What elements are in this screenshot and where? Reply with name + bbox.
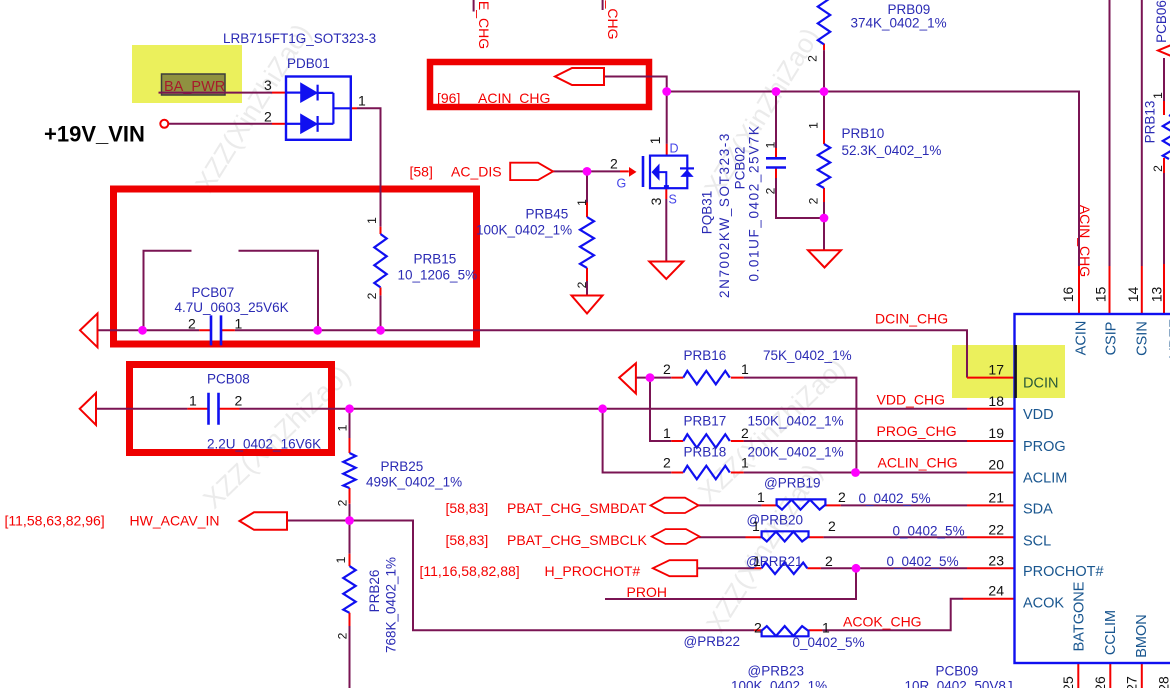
svg-text:0_0402_5%: 0_0402_5% <box>887 554 959 569</box>
svg-text:PRB45: PRB45 <box>526 207 569 222</box>
svg-text:C_CHG: C_CHG <box>605 0 621 40</box>
svg-text:2: 2 <box>264 109 272 125</box>
svg-text:100K_0402_1%: 100K_0402_1% <box>476 223 572 238</box>
wire bus to PRB10 top <box>823 92 825 131</box>
svg-text:2: 2 <box>828 518 836 534</box>
pin stubs IC left <box>963 378 1015 599</box>
svg-text:VDD: VDD <box>1023 407 1054 423</box>
pin stubs PRB15 <box>380 227 382 296</box>
svg-text:1: 1 <box>336 424 350 431</box>
svg-text:PDB01: PDB01 <box>287 56 330 71</box>
svg-text:2: 2 <box>825 553 833 569</box>
flag ACIN_CHG <box>555 68 604 85</box>
svg-text:PROG_CHG: PROG_CHG <box>877 423 957 439</box>
svg-text:E_CHG: E_CHG <box>476 1 492 49</box>
svg-text:28: 28 <box>1156 676 1170 688</box>
svg-text:3: 3 <box>264 77 272 93</box>
svg-text:0_0402_5%: 0_0402_5% <box>793 635 865 650</box>
svg-text:2.2U_0402_16V6K: 2.2U_0402_16V6K <box>207 437 321 452</box>
svg-text:ACIN: ACIN <box>1074 321 1090 356</box>
watermark 5 <box>700 459 827 638</box>
IC pin names top (vertical) <box>1074 319 1170 358</box>
wire +19V_VIN to PDB01 pin2 <box>169 123 273 125</box>
svg-text:15: 15 <box>1093 287 1109 303</box>
svg-text:150K_0402_1%: 150K_0402_1% <box>748 414 844 429</box>
IC pin numbers top (vertical) <box>1060 287 1165 303</box>
svg-text:18: 18 <box>988 393 1004 409</box>
svg-text:[11,58,63,82,96]: [11,58,63,82,96] <box>5 513 105 529</box>
svg-text:1: 1 <box>1151 92 1165 99</box>
pin stubs PRB19 <box>762 504 841 506</box>
svg-text:[58,83]: [58,83] <box>446 500 489 516</box>
watermark 4 <box>693 353 852 508</box>
wire PROG row right <box>744 440 967 442</box>
IC pin names left <box>1023 407 1104 612</box>
svg-text:PBAT_CHG_SMBDAT: PBAT_CHG_SMBDAT <box>507 500 647 516</box>
pin stubs IC top <box>1079 264 1164 314</box>
svg-text:PBAT_CHG_SMBCLK: PBAT_CHG_SMBCLK <box>507 532 647 548</box>
svg-text:2: 2 <box>336 499 350 506</box>
watermark 2 <box>698 23 825 202</box>
svg-text:4.7U_0603_25V6K: 4.7U_0603_25V6K <box>175 300 289 315</box>
wire AC_DIS to gate junction <box>553 170 620 172</box>
wire PRB25 bottom <box>349 504 351 521</box>
wire ACIN_CHG flag to bus <box>604 77 667 92</box>
svg-text:CSIP: CSIP <box>1104 322 1120 356</box>
svg-text:19: 19 <box>988 425 1004 441</box>
svg-text:PCB09: PCB09 <box>936 664 979 679</box>
svg-text:S: S <box>669 193 677 207</box>
svg-text:14: 14 <box>1125 287 1141 303</box>
wire gnd stem PRB10 <box>823 218 825 250</box>
pin stubs PQB31 drain source <box>665 144 667 199</box>
svg-text:100K_0402_1%: 100K_0402_1% <box>731 679 827 688</box>
highlight yellow box BA_PWR <box>132 45 242 103</box>
pin stubs PCB02 <box>775 148 777 178</box>
svg-text:1: 1 <box>365 217 379 224</box>
svg-text:499K_0402_1%: 499K_0402_1% <box>366 475 462 490</box>
svg-text:[96]: [96] <box>437 90 460 106</box>
svg-text:[58,83]: [58,83] <box>446 532 489 548</box>
pin stubs PRB17 <box>671 440 743 442</box>
capacitor PCB08 <box>209 393 219 425</box>
svg-text:2: 2 <box>764 187 778 194</box>
svg-text:2: 2 <box>235 393 243 409</box>
search box PCB07 area <box>114 189 477 344</box>
net label BA_PWR <box>162 74 226 95</box>
resistor PRB25 <box>343 453 355 488</box>
wire PRB10 bottom <box>823 202 825 218</box>
wire PRB16 left arrow to dot <box>636 377 671 379</box>
svg-text:2: 2 <box>741 425 749 441</box>
svg-text:1: 1 <box>663 425 671 441</box>
offpage arrow VDD row <box>80 393 96 425</box>
svg-text:[11,16,58,82,88]: [11,16,58,82,88] <box>420 563 520 579</box>
IC pin names bottom (vertical) <box>1072 581 1170 657</box>
svg-text:1: 1 <box>575 199 589 206</box>
wire ACOK row <box>822 599 963 631</box>
svg-text:1: 1 <box>757 489 765 505</box>
wire pin15 CSIP from top <box>1109 0 1111 266</box>
pin stubs PRB10 <box>823 130 825 202</box>
ground under PRB10 <box>808 250 841 267</box>
svg-text:2: 2 <box>663 361 671 377</box>
wire PRB45 bottom <box>586 281 588 296</box>
diode pack PDB01 <box>286 77 351 140</box>
wire PROH <box>605 568 856 599</box>
IC charger U <box>1015 314 1170 663</box>
svg-text:PCB07: PCB07 <box>192 285 235 300</box>
svg-text:HW_ACAV_IN: HW_ACAV_IN <box>130 513 220 529</box>
svg-text:1: 1 <box>752 518 760 534</box>
svg-text:374K_0402_1%: 374K_0402_1% <box>851 16 947 31</box>
pin stubs PRB22 <box>754 629 822 631</box>
svg-text:27: 27 <box>1124 676 1140 688</box>
wire bus to PCB02 top <box>775 92 777 149</box>
wire PRB16 right to ACLIM row <box>744 378 857 473</box>
pin stubs PRB20 <box>746 536 824 538</box>
svg-text:[58]: [58] <box>410 164 433 180</box>
ground under PQB31 <box>649 262 683 280</box>
flag PBAT_CHG_SMBDAT <box>651 498 699 513</box>
svg-text:0.01UF_0402_25V7K: 0.01UF_0402_25V7K <box>747 124 762 281</box>
pin stubs PCB07 <box>199 329 235 331</box>
svg-text:10R_0402_50V8J: 10R_0402_50V8J <box>905 679 1013 688</box>
svg-text:PRB16: PRB16 <box>684 348 727 363</box>
wire pin14 CSIN from top <box>1141 0 1143 266</box>
wire HW_ACAV_IN row <box>287 521 754 631</box>
svg-text:@PRB23: @PRB23 <box>748 664 804 679</box>
svg-text:DCIN_CHG: DCIN_CHG <box>875 311 948 327</box>
svg-text:PRB18: PRB18 <box>684 445 727 460</box>
svg-text:AC_DIS: AC_DIS <box>451 164 502 180</box>
svg-text:SDA: SDA <box>1023 502 1053 518</box>
svg-text:1: 1 <box>189 393 197 409</box>
svg-text:768K_0402_1%: 768K_0402_1% <box>384 557 399 653</box>
red pin stubs <box>187 44 1164 688</box>
wire SCL row <box>699 536 967 538</box>
svg-text:SCL: SCL <box>1023 534 1051 550</box>
svg-text:1: 1 <box>358 93 366 109</box>
svg-text:1: 1 <box>764 141 778 148</box>
svg-text:1: 1 <box>822 620 830 636</box>
pin stub PRB09 <box>823 44 825 51</box>
flag AC_DIS <box>510 163 553 180</box>
resistor PRB26 <box>343 566 355 613</box>
wire DCIN row left <box>98 329 200 331</box>
svg-text:2: 2 <box>754 620 762 636</box>
svg-text:G: G <box>617 177 627 191</box>
svg-text:1: 1 <box>741 361 749 377</box>
wire PRB45 top <box>586 171 588 202</box>
svg-text:24: 24 <box>988 583 1004 599</box>
pin stubs PRB25 <box>349 438 351 504</box>
resistor PRB19 (unstuffed) <box>777 499 826 509</box>
pin stubs PRB16 <box>671 377 743 379</box>
wire PRB25 top <box>349 409 351 438</box>
svg-text:1: 1 <box>647 136 663 144</box>
svg-text:0_0402_5%: 0_0402_5% <box>893 524 965 539</box>
pin stub PDB01 pin2 <box>272 123 286 125</box>
wire PROCHOT row <box>697 567 967 569</box>
svg-text:26: 26 <box>1092 676 1108 688</box>
svg-text:200K_0402_1%: 200K_0402_1% <box>748 445 844 460</box>
svg-text:+19V_VIN: +19V_VIN <box>44 122 145 147</box>
svg-text:PROCHOT#: PROCHOT# <box>1023 564 1104 580</box>
pin stub PDB01 pin3 <box>272 92 286 94</box>
svg-text:1: 1 <box>741 455 749 471</box>
svg-text:CCLIM: CCLIM <box>1103 610 1119 655</box>
wire left bracket stub <box>144 251 192 331</box>
wire PRB26 bottom to edge <box>349 626 351 688</box>
svg-text:PQB31: PQB31 <box>700 191 715 235</box>
svg-text:1: 1 <box>334 556 348 563</box>
resistor PRB17 <box>683 434 730 447</box>
pin stubs PRB21 <box>754 567 821 569</box>
svg-text:ACLIM: ACLIM <box>1023 471 1067 487</box>
wire PCB02 bottom <box>776 178 824 218</box>
svg-text:PRB17: PRB17 <box>684 414 727 429</box>
wire VDD row right <box>240 408 968 410</box>
pin stub PQB31 gate <box>620 170 629 172</box>
wire SDA row <box>697 504 967 506</box>
resistor PRB45 <box>580 217 594 268</box>
svg-text:H_PROCHOT#: H_PROCHOT# <box>545 563 641 579</box>
svg-text:2: 2 <box>610 156 618 172</box>
svg-text:2: 2 <box>838 489 846 505</box>
wire top stub C_CHG <box>602 0 604 10</box>
flag PBAT_CHG_SMBCLK <box>652 529 700 544</box>
svg-text:75K_0402_1%: 75K_0402_1% <box>763 348 852 363</box>
IC pin numbers left <box>988 362 1004 599</box>
svg-text:PRB13: PRB13 <box>1143 101 1158 144</box>
wire top stub E_CHG <box>473 0 475 12</box>
pin stubs PCB08 <box>187 408 239 410</box>
wire VDD branch down to ACLIM row <box>603 409 672 473</box>
watermark 3 <box>198 360 357 515</box>
pin stub PDB01 pin1 <box>351 107 357 109</box>
svg-text:0_0402_5%: 0_0402_5% <box>859 491 931 506</box>
wire DCIN row right <box>235 330 967 377</box>
offpage arrow DCIN row <box>80 314 98 348</box>
capacitor PCB07 <box>211 315 221 345</box>
resistor PRB09 <box>818 0 830 44</box>
svg-text:10_1206_5%: 10_1206_5% <box>398 268 478 283</box>
svg-text:2N7002KW_SOT323-3: 2N7002KW_SOT323-3 <box>717 132 732 298</box>
flag HW_ACAV_IN <box>240 512 288 530</box>
svg-text:PCB06: PCB06 <box>1154 0 1169 43</box>
svg-text:52.3K_0402_1%: 52.3K_0402_1% <box>842 143 942 158</box>
resistor PRB10 <box>818 144 830 188</box>
capacitor PCB02 <box>766 158 786 167</box>
wire BA_PWR to PDB01 pin3 <box>159 92 273 94</box>
resistor PRB18 <box>683 466 730 479</box>
resistor PRB15 <box>374 234 386 287</box>
svg-text:ACLIN_CHG: ACLIN_CHG <box>878 455 958 471</box>
svg-text:23: 23 <box>988 552 1004 568</box>
watermark 1 <box>189 19 316 198</box>
svg-text:2: 2 <box>188 316 196 332</box>
pin stubs PRB13 <box>1163 101 1165 173</box>
svg-text:PRB15: PRB15 <box>414 252 457 267</box>
svg-text:2: 2 <box>806 55 820 62</box>
resistor PRB22 (unstuffed) <box>762 626 809 636</box>
svg-text:ACIN_CHG: ACIN_CHG <box>478 90 550 106</box>
svg-text:@PRB22: @PRB22 <box>684 634 740 649</box>
resistor PRB20 (unstuffed) <box>762 531 809 541</box>
svg-text:2: 2 <box>1151 165 1165 172</box>
svg-text:BATGONE: BATGONE <box>1072 581 1088 651</box>
wire bus to PQB31 drain <box>666 92 668 144</box>
svg-text:D: D <box>670 142 679 156</box>
svg-text:2: 2 <box>807 197 821 204</box>
svg-text:2: 2 <box>663 455 671 471</box>
svg-text:2: 2 <box>575 281 589 288</box>
offpage arrow PRB16 <box>619 363 636 393</box>
svg-text:ACOK: ACOK <box>1023 596 1064 612</box>
resistor PRB16 <box>683 371 730 384</box>
svg-text:ACOK_CHG: ACOK_CHG <box>843 614 922 630</box>
svg-text:17: 17 <box>988 362 1004 378</box>
IC edge darkened under highlight <box>1014 345 1017 398</box>
svg-text:BMON: BMON <box>1134 614 1150 658</box>
wire PDB01 pin1 to PRB15 top <box>357 108 381 227</box>
svg-text:PRB25: PRB25 <box>381 459 424 474</box>
pin stubs IC bottom <box>1078 663 1142 688</box>
svg-text:2: 2 <box>365 292 379 299</box>
svg-text:3: 3 <box>648 197 664 205</box>
svg-text:2: 2 <box>336 632 350 639</box>
wire PQB31 source to ground <box>665 199 667 262</box>
IC pin numbers bottom (vertical) <box>1060 676 1170 688</box>
wire PRB26 top <box>349 521 351 554</box>
svg-text:ACIN_CHG: ACIN_CHG <box>1077 205 1093 277</box>
svg-text:1: 1 <box>807 122 821 129</box>
svg-text:PRB10: PRB10 <box>842 126 885 141</box>
svg-text:CSIN: CSIN <box>1134 321 1150 356</box>
pin stubs PRB18 <box>671 472 743 474</box>
wire VDD row left <box>96 408 187 410</box>
wire ACIN bus <box>667 92 1079 267</box>
svg-text:25: 25 <box>1060 676 1076 688</box>
resistor PRB21 (unstuffed) <box>762 563 808 574</box>
pin stubs PRB45 <box>586 203 588 282</box>
wire PRB13 net <box>1163 58 1165 264</box>
svg-text:21: 21 <box>988 489 1004 505</box>
search box ACIN_CHG <box>430 62 649 107</box>
pin stubs PRB26 <box>349 554 351 626</box>
svg-text:1: 1 <box>235 316 243 332</box>
svg-text:PROG: PROG <box>1023 439 1066 455</box>
svg-text:PCB02: PCB02 <box>733 147 748 190</box>
svg-text:22: 22 <box>988 521 1004 537</box>
wire right bracket stub <box>239 251 319 331</box>
svg-text:PCB08: PCB08 <box>207 372 250 387</box>
svg-text:DCIN: DCIN <box>1023 376 1058 392</box>
svg-text:VDD_CHG: VDD_CHG <box>877 392 945 408</box>
wire PRB09 bottom to bus <box>823 50 825 91</box>
terminal +19V_VIN <box>160 120 168 128</box>
flag H_PROCHOT# <box>653 560 697 576</box>
svg-text:13: 13 <box>1149 287 1165 303</box>
highlight yellow box DCIN pin17 <box>952 345 1065 398</box>
wire PRB15 bottom to DCIN row <box>380 295 382 330</box>
svg-text:1: 1 <box>753 553 761 569</box>
search box PCB08 area <box>130 365 332 453</box>
ground under PRB45 <box>572 296 603 314</box>
svg-text:PROH: PROH <box>627 584 667 600</box>
svg-text:20: 20 <box>988 457 1004 473</box>
svg-text:LRB715FT1G_SOT323-3: LRB715FT1G_SOT323-3 <box>223 31 376 46</box>
wire PRB16 branch down to PROG row <box>650 378 671 441</box>
svg-text:PRB26: PRB26 <box>367 570 382 613</box>
resistor PRB13 <box>1163 115 1170 159</box>
svg-text:@PRB19: @PRB19 <box>764 476 820 491</box>
wire ACLIM row right <box>744 472 967 474</box>
offpage arrow PCB06 (clipped) <box>1158 43 1170 58</box>
svg-text:16: 16 <box>1060 287 1076 303</box>
transistor PQB31 <box>629 156 694 190</box>
